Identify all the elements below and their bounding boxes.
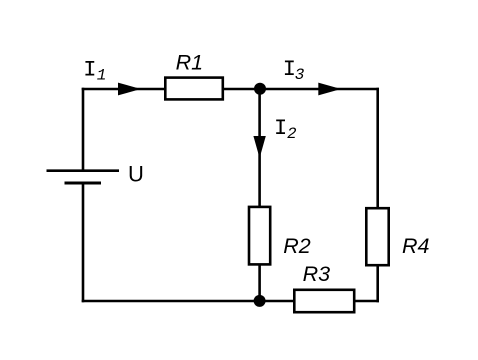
resistor R3 — [294, 290, 354, 312]
svg-text:U: U — [128, 162, 144, 187]
label R2 — [283, 234, 311, 258]
resistor R2 — [249, 207, 270, 265]
resistor R4 — [366, 208, 388, 265]
current arrow I2 — [253, 136, 265, 158]
svg-text:I: I — [274, 116, 287, 141]
wire top from corner to R1 — [82, 88, 166, 91]
label U (source voltage) — [128, 162, 144, 187]
svg-text:3: 3 — [295, 66, 305, 84]
node B (junction dot bottom) — [254, 295, 266, 307]
wire right vertical from R4 to bottom-right corner — [376, 265, 379, 302]
svg-text:R2: R2 — [283, 234, 311, 258]
node A (junction dot top) — [254, 83, 266, 95]
svg-text:R4: R4 — [402, 234, 430, 258]
label I3 — [283, 57, 305, 84]
wire middle vertical from R2 to node B — [258, 264, 261, 301]
svg-text:I: I — [83, 58, 96, 83]
wire left vertical top (from top-left corner to battery plate) — [82, 88, 85, 171]
label R1 — [176, 51, 203, 75]
wire from node B to R3 — [260, 300, 295, 303]
current arrow I1 — [118, 83, 141, 96]
label I2 — [274, 116, 297, 143]
svg-text:2: 2 — [287, 125, 297, 143]
wire right vertical from corner to R4 — [376, 88, 379, 209]
wire middle vertical from node A to R2 — [258, 89, 261, 207]
svg-text:R1: R1 — [176, 51, 203, 75]
wire from R3 to bottom-right corner — [354, 300, 379, 303]
wire top from node A to top-right corner — [260, 88, 379, 91]
label R4 — [402, 234, 430, 258]
label I1 — [83, 58, 106, 85]
wire left vertical bottom (from battery to bottom-left corner) — [82, 183, 85, 302]
current arrow I3 — [318, 83, 341, 96]
svg-text:R3: R3 — [303, 262, 331, 286]
wire from R1 to node A — [223, 88, 260, 91]
resistor R1 — [165, 78, 223, 100]
wire bottom from corner to node B — [82, 300, 260, 303]
svg-text:1: 1 — [97, 67, 107, 85]
battery source U plate long — [47, 169, 120, 172]
label R3 — [303, 262, 331, 286]
battery source U plate short — [65, 182, 102, 185]
